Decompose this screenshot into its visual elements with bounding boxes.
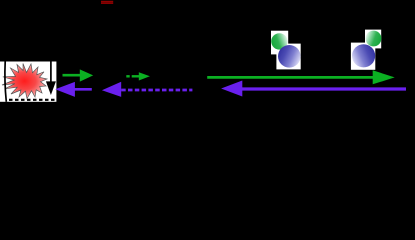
- white box: [0, 62, 56, 102]
- box bottom dashed border: [9, 99, 55, 101]
- starburst: [2, 64, 47, 99]
- purple arrow small: [55, 82, 92, 97]
- molecule 1 white square B (blue): [276, 44, 300, 70]
- molecule 1 white square A (green): [271, 31, 288, 55]
- molecule 2 green sphere: [366, 31, 382, 47]
- green arrow small solid: [63, 69, 94, 81]
- red bar: [101, 1, 113, 4]
- box left border: [5, 61, 6, 102]
- molecule 1 blue sphere: [278, 45, 301, 68]
- black down arrow: [46, 56, 56, 95]
- green arrow long: [207, 70, 395, 84]
- molecule 2 white square A (green): [365, 30, 381, 49]
- molecule 1 green sphere: [271, 33, 287, 49]
- molecule 2 blue sphere: [352, 44, 375, 67]
- molecule 2 white square B (blue): [351, 43, 375, 70]
- purple arrow long: [221, 81, 406, 97]
- purple arrow dashed: [102, 82, 192, 97]
- green arrow dashed: [126, 72, 150, 80]
